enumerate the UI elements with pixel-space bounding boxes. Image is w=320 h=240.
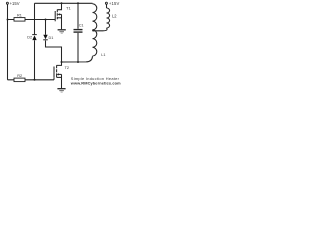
node D1 junction xyxy=(45,19,47,21)
svg-text:R1: R1 xyxy=(17,14,22,18)
svg-text:R2: R2 xyxy=(17,74,22,78)
node tank bottom T2 drain xyxy=(61,61,63,63)
wire L2 to terminal xyxy=(106,4,108,8)
transistor T2 (N-MOSFET) xyxy=(54,62,69,89)
node C1 top on top rail xyxy=(77,2,79,4)
wire L1 bottom tail to node B xyxy=(62,56,93,62)
wire T2 gate riser xyxy=(53,77,55,80)
wire top rail node A xyxy=(35,2,93,4)
terminal +15V left xyxy=(6,1,19,6)
resistor R2 xyxy=(14,74,25,82)
node D2 to gate line xyxy=(34,79,36,81)
wire bottom rail T2 gate line xyxy=(8,79,55,81)
svg-text:T2: T2 xyxy=(65,66,69,70)
svg-text:+15V: +15V xyxy=(10,1,20,6)
node gate line junction xyxy=(7,19,9,21)
inductor L1 (work coil) xyxy=(93,4,106,57)
svg-text:L1: L1 xyxy=(101,53,105,57)
resistor R1 xyxy=(14,14,25,22)
ground (T2 source) xyxy=(57,89,65,92)
transistor T1 (N-MOSFET) xyxy=(55,3,71,29)
node L1 centre tap xyxy=(92,29,94,31)
wire D1 branch xyxy=(46,20,62,63)
svg-text:+15V: +15V xyxy=(109,1,120,6)
svg-text:T1: T1 xyxy=(66,5,71,10)
wire left rail xyxy=(7,4,9,80)
inductor L2 (choke) xyxy=(107,8,118,28)
wire T1 gate line xyxy=(8,19,56,21)
capacitor C1 xyxy=(74,3,84,62)
wire D2 branch vertical xyxy=(34,3,36,79)
svg-text:L2: L2 xyxy=(112,14,117,19)
node T1 drain on top rail xyxy=(61,2,63,4)
ground (T1 source) xyxy=(58,30,66,33)
svg-text:D2: D2 xyxy=(27,35,32,39)
svg-text:D1: D1 xyxy=(49,36,54,40)
svg-text:C1: C1 xyxy=(79,24,84,28)
title text xyxy=(70,76,121,86)
node C1 bottom xyxy=(77,61,79,63)
svg-text:www.RMCybernetics.com: www.RMCybernetics.com xyxy=(70,81,121,86)
terminal +15V right xyxy=(105,1,119,6)
wire centre tap to L2 xyxy=(93,28,108,31)
diode D2 xyxy=(27,35,37,41)
diode D1 xyxy=(43,35,53,40)
